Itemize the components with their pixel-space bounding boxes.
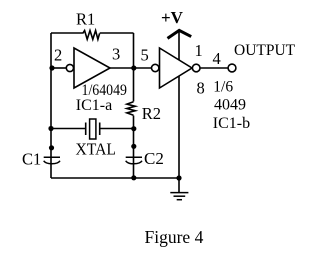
wire R2 top lead: [133, 68, 135, 102]
junction dot XTAL left: [48, 126, 53, 131]
resistor R2: [127, 102, 135, 115]
wire input of U1a: [51, 67, 66, 69]
svg-text:R2: R2: [142, 104, 161, 123]
wire +V pin 1: [178, 31, 180, 61]
wire XTAL right lead: [100, 128, 134, 130]
svg-text:5: 5: [141, 46, 149, 65]
svg-text:R1: R1: [76, 10, 95, 29]
capacitor C2: [126, 157, 142, 164]
wire pin 8 to ground: [178, 76, 180, 192]
svg-text:C2: C2: [144, 149, 164, 168]
wire top feedback right segment: [100, 32, 134, 34]
wire right rail upper: [133, 33, 135, 68]
ground: [170, 193, 188, 200]
op-amp U2 inverter IC1-b triangle: [160, 48, 193, 88]
svg-text:4: 4: [213, 49, 221, 68]
wire right rail C2 section: [133, 129, 135, 179]
wire R2 bottom lead: [133, 116, 135, 129]
wire XTAL left lead: [51, 128, 86, 130]
svg-text:XTAL: XTAL: [76, 140, 117, 159]
junction dot input U1a: [49, 65, 54, 70]
junction dot C2 top: [131, 144, 136, 149]
svg-text:2: 2: [54, 46, 62, 65]
power +V chevron: [168, 30, 192, 38]
inverter IC1-a input bubble: [66, 64, 73, 71]
wire U1a output to U1b input: [134, 67, 152, 69]
svg-text:3: 3: [112, 45, 120, 64]
wire output to terminal: [200, 67, 228, 69]
wire bottom rail: [51, 177, 179, 179]
svg-text:Figure 4: Figure 4: [145, 227, 204, 247]
svg-text:1/6: 1/6: [213, 79, 233, 96]
crystal XTAL: [86, 119, 100, 139]
resistor R1: [83, 31, 100, 40]
wire output of U1a: [110, 67, 134, 69]
junction dot ground: [176, 175, 181, 180]
junction dot C1 top: [49, 145, 54, 150]
svg-text:4049: 4049: [214, 97, 246, 114]
svg-text:OUTPUT: OUTPUT: [234, 42, 296, 59]
junction dot XTAL right: [131, 126, 136, 131]
wire left rail: [50, 33, 52, 178]
capacitor C1: [44, 157, 60, 164]
wire top feedback left segment: [51, 32, 83, 34]
inverter IC1-b output bubble: [192, 64, 200, 72]
op-amp U1 inverter IC1-a triangle: [74, 48, 110, 88]
inverter IC1-b input bubble: [152, 64, 159, 71]
svg-text:IC1-b: IC1-b: [213, 115, 250, 132]
svg-text:+V: +V: [161, 8, 184, 27]
svg-text:1: 1: [195, 41, 203, 60]
svg-text:IC1-a: IC1-a: [76, 97, 112, 114]
output terminal: [228, 64, 236, 72]
junction dot C2 bottom: [131, 175, 136, 180]
junction dot output U1a: [131, 65, 136, 70]
svg-text:8: 8: [197, 79, 205, 98]
svg-text:C1: C1: [22, 149, 41, 168]
